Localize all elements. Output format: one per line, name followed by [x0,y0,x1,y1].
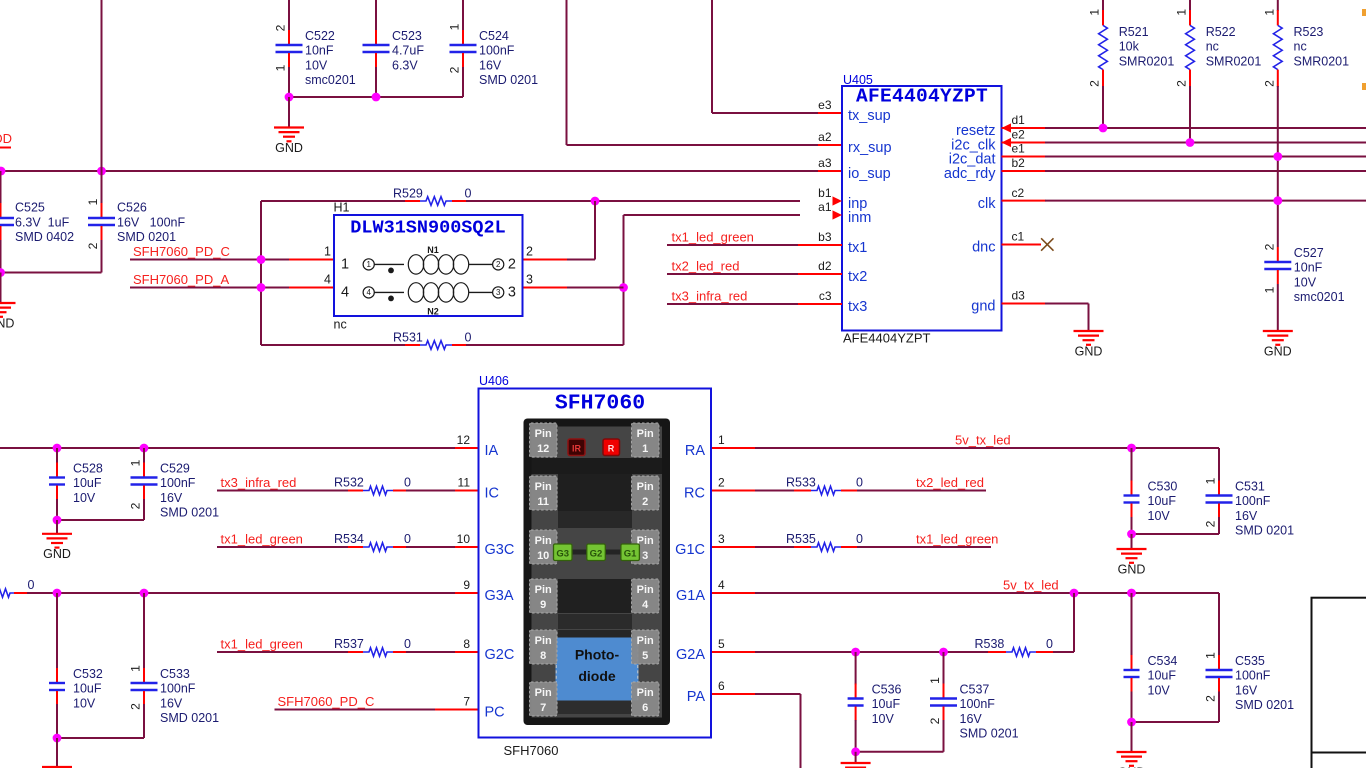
svg-text:1: 1 [448,23,462,30]
svg-text:SFH7060_PD_C: SFH7060_PD_C [133,244,230,259]
svg-text:C522: C522 [305,29,335,43]
svg-text:7: 7 [540,702,546,714]
svg-text:SMD 0201: SMD 0201 [1235,524,1294,538]
svg-text:tx3_infra_red: tx3_infra_red [672,288,748,303]
svg-text:2: 2 [448,66,462,73]
svg-text:1: 1 [324,245,331,259]
svg-text:0: 0 [404,476,411,490]
svg-text:c3: c3 [819,289,832,303]
svg-text:9: 9 [540,599,546,611]
svg-text:2: 2 [274,24,288,31]
svg-text:dnc: dnc [972,240,995,256]
svg-text:nc: nc [1294,40,1307,54]
svg-text:0: 0 [465,331,472,345]
svg-text:rx_sup: rx_sup [848,140,892,156]
svg-text:SFH7060_PD_C: SFH7060_PD_C [278,694,375,709]
svg-text:C527: C527 [1294,246,1324,260]
svg-text:GND: GND [1075,344,1103,358]
svg-text:inm: inm [848,210,871,226]
svg-text:R523: R523 [1294,25,1324,39]
svg-text:5: 5 [642,650,648,662]
svg-text:C526: C526 [117,201,147,215]
svg-text:16V: 16V [960,712,983,726]
svg-text:a1: a1 [818,200,832,214]
svg-text:4: 4 [718,578,725,592]
svg-text:10: 10 [457,532,471,546]
svg-text:tx1_led_green: tx1_led_green [916,531,998,546]
svg-text:DLW31SN900SQ2L: DLW31SN900SQ2L [350,217,505,238]
svg-text:smc0201: smc0201 [1294,290,1345,304]
svg-text:8: 8 [463,637,470,651]
svg-text:R: R [608,443,615,453]
svg-text:Pin: Pin [637,584,654,596]
svg-text:SMD 0201: SMD 0201 [960,727,1019,741]
svg-text:SMD 0402: SMD 0402 [15,230,74,244]
svg-text:1: 1 [928,677,942,684]
svg-text:G2C: G2C [485,647,515,663]
svg-text:tx1_led_green: tx1_led_green [221,636,303,651]
svg-text:10V: 10V [73,696,96,710]
svg-text:c2: c2 [1012,186,1025,200]
svg-text:Pin: Pin [637,687,654,699]
svg-text:tx_sup: tx_sup [848,108,891,124]
svg-text:tx1_led_green: tx1_led_green [672,229,754,244]
svg-text:SMD 0201: SMD 0201 [117,230,176,244]
svg-text:3: 3 [642,550,648,562]
svg-text:C537: C537 [960,683,990,697]
svg-text:10uF: 10uF [73,682,102,696]
svg-text:12: 12 [537,443,549,455]
svg-text:1: 1 [129,665,143,672]
svg-text:4.7uF: 4.7uF [392,44,424,58]
svg-text:tx1_led_green: tx1_led_green [221,531,303,546]
svg-text:d1: d1 [1012,113,1026,127]
svg-text:4: 4 [642,599,649,611]
svg-text:5v_tx_led: 5v_tx_led [1003,578,1059,593]
svg-text:10uF: 10uF [73,476,102,490]
svg-text:GND: GND [43,547,71,561]
svg-text:1: 1 [718,433,725,447]
svg-text:tx2_led_red: tx2_led_red [672,258,740,273]
svg-text:Pin: Pin [535,535,552,547]
svg-text:1: 1 [274,64,288,71]
svg-text:3: 3 [508,285,516,301]
svg-text:3: 3 [526,273,533,287]
svg-text:C535: C535 [1235,654,1265,668]
svg-text:10nF: 10nF [305,44,334,58]
svg-text:1: 1 [1204,477,1218,484]
svg-text:2: 2 [1262,80,1276,87]
svg-text:3: 3 [718,532,725,546]
svg-text:2: 2 [526,245,533,259]
svg-text:C531: C531 [1235,480,1265,494]
svg-text:2: 2 [129,502,143,509]
svg-text:SMD 0201: SMD 0201 [160,506,219,520]
svg-text:2: 2 [129,703,143,710]
svg-text:2: 2 [496,260,501,269]
svg-text:6: 6 [718,679,725,693]
svg-text:GND: GND [275,141,303,155]
svg-text:100nF: 100nF [1235,669,1271,683]
svg-text:16V: 16V [160,696,183,710]
svg-text:C523: C523 [392,29,422,43]
svg-text:nc: nc [334,318,347,332]
svg-text:SMD 0201: SMD 0201 [479,73,538,87]
svg-text:1: 1 [1088,9,1102,16]
svg-text:2: 2 [1088,80,1102,87]
svg-text:R534: R534 [334,532,364,546]
svg-text:10V: 10V [305,58,328,72]
svg-text:10k: 10k [1119,40,1140,54]
svg-text:G1A: G1A [676,588,705,604]
svg-text:5v_tx_led: 5v_tx_led [955,433,1011,448]
svg-text:Pin: Pin [535,481,552,493]
svg-text:N1: N1 [427,245,439,255]
svg-text:SFH7060: SFH7060 [555,391,645,415]
svg-text:G3A: G3A [485,588,514,604]
svg-text:R533: R533 [786,476,816,490]
svg-text:2: 2 [1204,695,1218,702]
svg-text:N2: N2 [427,307,439,317]
svg-text:GND: GND [1264,344,1292,358]
svg-text:Pin: Pin [535,428,552,440]
svg-text:RA: RA [685,443,705,459]
svg-text:C532: C532 [73,667,103,681]
svg-text:GND: GND [0,316,14,330]
svg-text:9: 9 [463,578,470,592]
svg-text:2: 2 [718,476,725,490]
svg-text:3: 3 [496,288,501,297]
svg-text:C529: C529 [160,462,190,476]
svg-text:10uF: 10uF [1148,669,1177,683]
svg-text:C528: C528 [73,462,103,476]
svg-text:7: 7 [463,695,470,709]
svg-text:11: 11 [537,496,549,508]
svg-text:b3: b3 [818,230,832,244]
svg-text:2: 2 [928,717,942,724]
svg-text:Pin: Pin [637,481,654,493]
svg-text:1: 1 [129,459,143,466]
svg-text:10uF: 10uF [1148,494,1177,508]
svg-text:5: 5 [718,637,725,651]
svg-text:4: 4 [324,273,331,287]
svg-text:d3: d3 [1012,289,1026,303]
svg-text:4: 4 [341,285,349,301]
svg-text:a3: a3 [818,156,832,170]
svg-text:b2: b2 [1012,156,1026,170]
svg-text:C524: C524 [479,29,509,43]
svg-text:SMR0201: SMR0201 [1206,54,1262,68]
svg-text:IC: IC [485,486,500,502]
svg-text:0: 0 [465,187,472,201]
svg-text:2: 2 [1175,80,1189,87]
svg-text:12: 12 [457,433,471,447]
svg-text:2: 2 [508,257,516,273]
svg-text:0: 0 [404,532,411,546]
svg-text:1: 1 [366,260,371,269]
svg-text:6.3V: 6.3V [392,58,418,72]
svg-text:16V: 16V [160,491,183,505]
svg-text:DD: DD [0,131,12,146]
svg-text:R535: R535 [786,532,816,546]
svg-text:G3: G3 [556,549,569,560]
svg-text:10V: 10V [872,712,895,726]
svg-text:R537: R537 [334,637,364,651]
svg-text:c1: c1 [1012,230,1025,244]
svg-text:tx1: tx1 [848,240,867,256]
svg-text:0: 0 [856,476,863,490]
svg-text:10V: 10V [1294,275,1317,289]
svg-text:G1: G1 [624,549,637,560]
svg-text:C533: C533 [160,667,190,681]
svg-text:2: 2 [1262,243,1276,250]
svg-text:10uF: 10uF [872,697,901,711]
svg-text:1: 1 [1175,9,1189,16]
svg-text:smc0201: smc0201 [305,73,356,87]
svg-text:4: 4 [366,288,371,297]
svg-text:C536: C536 [872,683,902,697]
svg-text:H1: H1 [334,201,350,215]
svg-text:1: 1 [86,198,100,205]
svg-text:Pin: Pin [637,428,654,440]
svg-text:adc_rdy: adc_rdy [944,166,996,182]
svg-text:diode: diode [578,668,616,684]
svg-text:io_sup: io_sup [848,166,891,182]
svg-text:G2: G2 [590,549,603,560]
svg-text:0: 0 [1046,637,1053,651]
svg-text:6.3V 1uF: 6.3V 1uF [15,215,70,229]
svg-text:0: 0 [404,637,411,651]
svg-text:d2: d2 [818,259,832,273]
svg-text:2: 2 [1204,520,1218,527]
svg-text:8: 8 [540,650,546,662]
svg-text:R538: R538 [975,637,1005,651]
svg-text:PC: PC [485,705,505,721]
svg-text:1: 1 [642,443,648,455]
svg-text:16V: 16V [479,58,502,72]
svg-text:SFH7060_PD_A: SFH7060_PD_A [133,272,229,287]
svg-text:G3C: G3C [485,542,515,558]
svg-text:IA: IA [485,443,499,459]
svg-text:16V: 16V [1235,683,1258,697]
svg-text:0: 0 [856,532,863,546]
svg-text:10V: 10V [1148,683,1171,697]
svg-text:1: 1 [341,257,349,273]
svg-text:tx3_infra_red: tx3_infra_red [221,475,297,490]
svg-text:SMR0201: SMR0201 [1119,54,1175,68]
svg-text:1: 1 [1262,9,1276,16]
svg-text:R522: R522 [1206,25,1236,39]
svg-text:100nF: 100nF [479,44,515,58]
svg-text:SMD 0201: SMD 0201 [160,711,219,725]
svg-text:AFE4404YZPT: AFE4404YZPT [843,331,930,346]
svg-text:nc: nc [1206,40,1219,54]
svg-text:100nF: 100nF [960,697,996,711]
svg-text:100nF: 100nF [160,682,196,696]
svg-text:1: 1 [1204,652,1218,659]
svg-text:16V: 16V [1235,509,1258,523]
svg-text:SFH7060: SFH7060 [504,743,559,758]
svg-text:tx2_led_red: tx2_led_red [916,475,984,490]
svg-text:IR: IR [572,443,582,453]
svg-text:clk: clk [978,196,996,212]
svg-text:2: 2 [86,242,100,249]
svg-text:gnd: gnd [971,299,995,315]
svg-text:AFE4404YZPT: AFE4404YZPT [856,85,988,107]
svg-text:Pin: Pin [535,687,552,699]
svg-text:G2A: G2A [676,647,705,663]
svg-text:Pin: Pin [637,635,654,647]
svg-text:e3: e3 [818,98,832,112]
svg-text:R521: R521 [1119,25,1149,39]
svg-text:Pin: Pin [535,635,552,647]
svg-text:1: 1 [1262,286,1276,293]
svg-text:10nF: 10nF [1294,261,1323,275]
svg-text:0: 0 [28,578,35,592]
svg-text:GND: GND [1118,562,1146,576]
svg-text:6: 6 [642,702,648,714]
svg-text:SMD 0201: SMD 0201 [1235,698,1294,712]
svg-text:tx2: tx2 [848,269,867,285]
svg-text:C534: C534 [1148,654,1178,668]
svg-text:PA: PA [687,689,706,705]
svg-text:e1: e1 [1012,142,1026,156]
svg-text:100nF: 100nF [160,476,196,490]
svg-text:SMR0201: SMR0201 [1294,54,1350,68]
svg-text:U406: U406 [479,374,509,388]
svg-text:a2: a2 [818,130,832,144]
svg-text:R531: R531 [393,331,423,345]
svg-text:b1: b1 [818,186,832,200]
svg-text:Photo-: Photo- [575,647,620,663]
svg-text:16V 100nF: 16V 100nF [117,215,185,229]
svg-text:R529: R529 [393,187,423,201]
svg-text:10: 10 [537,550,549,562]
svg-text:10V: 10V [1148,509,1171,523]
svg-text:11: 11 [458,476,471,490]
svg-text:C530: C530 [1148,480,1178,494]
svg-text:Pin: Pin [535,584,552,596]
svg-text:tx3: tx3 [848,299,867,315]
svg-text:2: 2 [642,496,648,508]
svg-text:100nF: 100nF [1235,494,1271,508]
svg-text:R532: R532 [334,476,364,490]
svg-text:10V: 10V [73,491,96,505]
svg-text:G1C: G1C [675,542,705,558]
svg-text:RC: RC [684,486,705,502]
svg-text:C525: C525 [15,201,45,215]
svg-text:e2: e2 [1012,128,1026,142]
